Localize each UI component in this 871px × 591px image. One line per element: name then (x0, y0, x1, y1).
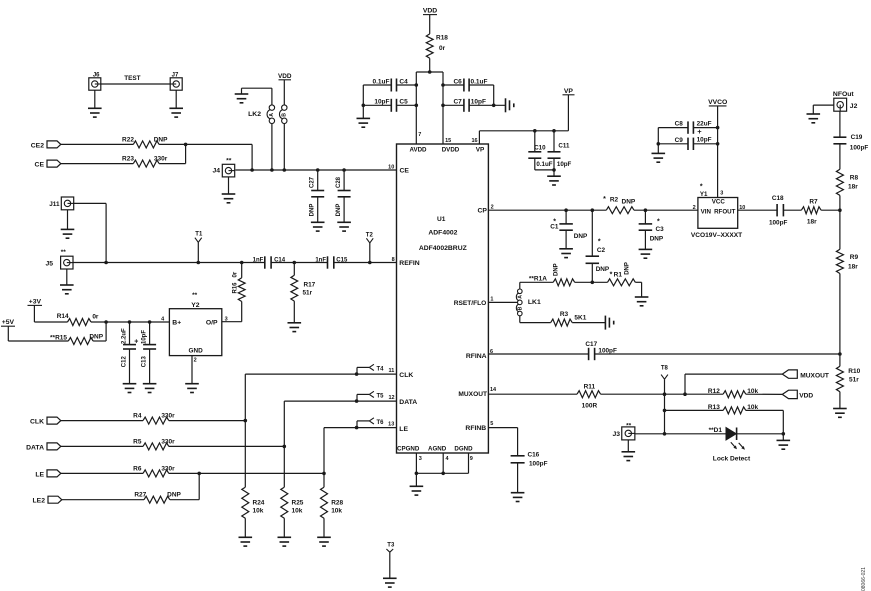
svg-text:100pF: 100pF (598, 347, 617, 354)
resistor R16 0r (vertical) (232, 263, 245, 322)
svg-text:18r: 18r (848, 264, 858, 271)
svg-text:VIN: VIN (701, 208, 712, 215)
svg-text:C3: C3 (656, 226, 665, 233)
resistor R1 DNP (608, 262, 636, 286)
node CE/LK2A (270, 168, 274, 172)
resistor R11 100R (577, 383, 601, 409)
svg-text:R1: R1 (614, 272, 623, 279)
resistor R17 51r (vertical) (291, 263, 316, 323)
wire DATA to R5 (61, 445, 143, 447)
output port MUXOUT (782, 370, 829, 379)
ground (J5) (60, 285, 74, 294)
wire LED cathode to ground (737, 433, 784, 435)
ground (R24) (239, 537, 253, 546)
svg-text:C28: C28 (336, 176, 342, 188)
svg-text:RFOUT: RFOUT (714, 208, 736, 215)
node LE/T6 (355, 426, 359, 430)
node AGND (441, 472, 445, 476)
svg-text:5K1: 5K1 (574, 315, 586, 322)
wire J3 to ground (627, 440, 629, 452)
wire CLK to R4 (61, 420, 143, 422)
svg-text:11: 11 (388, 368, 394, 374)
svg-text:*: * (603, 196, 606, 203)
wire C6/C7 right to ground (469, 85, 505, 105)
node CE/R22 (250, 168, 254, 172)
diode D1 LED lock detect (709, 427, 751, 462)
resistor R14 0r (57, 313, 99, 325)
wire R23 up to R22 net (159, 144, 186, 163)
resistor R13 10k (708, 404, 759, 414)
svg-text:R9: R9 (850, 254, 859, 261)
svg-text:R17: R17 (304, 282, 316, 289)
resistor R1A DNP (529, 263, 575, 285)
svg-text:R4: R4 (133, 413, 142, 420)
ground (C6/C7, sideways) (506, 98, 514, 112)
capacitor C10 0.1uF (528, 131, 554, 170)
svg-text:CLK: CLK (399, 372, 413, 379)
svg-text:VDD: VDD (423, 8, 437, 15)
svg-text:DATA: DATA (399, 399, 417, 406)
wire DATA pin 12 (284, 401, 396, 446)
capacitor C11 10pF (548, 131, 572, 176)
svg-text:LK2: LK2 (248, 111, 261, 118)
svg-text:DNP: DNP (574, 233, 588, 240)
svg-text:T8: T8 (661, 365, 669, 371)
node VVCO/C9 (716, 142, 720, 146)
svg-text:**R15: **R15 (50, 334, 67, 341)
svg-text:VP: VP (564, 88, 574, 95)
ground (T3) (383, 578, 397, 587)
wire J4 to ground (228, 177, 230, 194)
svg-text:DNP: DNP (553, 263, 559, 276)
wire R22 to CE node (159, 143, 252, 145)
wire J11 to ground (67, 210, 69, 230)
wire R4 to CLK column (169, 420, 246, 422)
svg-text:R18: R18 (436, 35, 448, 42)
resistor R2 DNP (603, 196, 636, 214)
svg-text:10k: 10k (253, 508, 264, 515)
wire C4/C5 left to ground (363, 85, 391, 118)
wire CE to R23 (61, 163, 134, 165)
node CLK junction (244, 419, 248, 423)
wire R12 to VDD tag (746, 393, 783, 395)
svg-text:100pF: 100pF (769, 220, 788, 227)
svg-text:330r: 330r (161, 413, 175, 420)
node REFIN/T2 (368, 261, 372, 265)
svg-text:*: * (700, 184, 703, 191)
wire Y2 O/P to R16 (222, 321, 242, 323)
svg-text:Y2: Y2 (191, 302, 200, 309)
wire supply rail to AVDD/DVDD (416, 72, 443, 144)
svg-text:R2: R2 (610, 196, 619, 203)
resistor R10 51r (vertical) (836, 366, 860, 391)
svg-text:1nF: 1nF (315, 258, 326, 264)
test point T3 (386, 543, 395, 579)
node CP/C3 (644, 208, 648, 212)
svg-text:0.1uF: 0.1uF (536, 161, 552, 168)
svg-text:VP: VP (476, 146, 485, 153)
node AVDD C5 tap (415, 104, 419, 108)
node RFINA/R10 (838, 352, 842, 356)
node CE/C27 (316, 168, 320, 172)
resistor R4 330r (133, 413, 175, 425)
svg-text:RFINA: RFINA (466, 353, 487, 360)
svg-text:Lock Detect: Lock Detect (713, 456, 751, 463)
wire CE2 to R22 (61, 143, 134, 145)
input port LE2 (33, 496, 62, 505)
capacitor C17 100pF (585, 341, 617, 360)
svg-text:LK1: LK1 (528, 299, 541, 306)
resistor R7 18r (801, 199, 821, 226)
node LE/R27 (197, 472, 201, 476)
capacitor C16 100pF (511, 451, 548, 492)
svg-text:**: ** (626, 422, 632, 429)
svg-text:T6: T6 (376, 420, 384, 426)
node VP/C10 (533, 129, 537, 133)
wire R15 up to B+ net (93, 322, 106, 341)
resistor R25 10k (vertical) (281, 446, 304, 537)
wire node to R10 (839, 354, 841, 366)
svg-text:C11: C11 (558, 142, 570, 149)
capacitor C6 0.1uF (443, 78, 488, 91)
test point T5 (357, 391, 384, 401)
power net +3V (28, 298, 43, 305)
ground (C3) (639, 249, 653, 258)
svg-text:10: 10 (388, 165, 394, 171)
wire R1 to ground (635, 282, 641, 297)
capacitor C12 2.2uF (122, 322, 139, 384)
resistor R5 330r (133, 438, 175, 450)
svg-text:3: 3 (419, 456, 422, 462)
svg-text:CLK: CLK (30, 419, 44, 426)
ground (C8/C9) (652, 153, 666, 162)
svg-text:C9: C9 (675, 137, 684, 144)
svg-text:C18: C18 (772, 195, 784, 202)
capacitor C7 10pF (443, 99, 486, 112)
svg-text:0r: 0r (439, 45, 446, 52)
node C2/R1A/R1 (591, 281, 595, 285)
svg-text:330r: 330r (154, 156, 168, 163)
svg-text:C27: C27 (310, 176, 316, 188)
wire REFIN row (J5 to C14) (73, 262, 265, 264)
svg-text:R11: R11 (584, 383, 596, 390)
svg-text:08066-021: 08066-021 (861, 567, 867, 591)
capacitor C28 DNP (336, 170, 351, 222)
svg-text:51r: 51r (849, 377, 859, 384)
ground (J3) (622, 452, 636, 461)
wire J5 to ground (66, 269, 68, 285)
input port LE (35, 470, 60, 478)
wire LK2 A to CE row (271, 124, 273, 170)
wire VVCO to Y1 VCC (717, 106, 719, 198)
svg-text:100pF: 100pF (850, 145, 869, 152)
svg-text:B+: B+ (172, 319, 181, 326)
wire VDD to R18 (429, 15, 431, 34)
svg-text:VCC: VCC (712, 199, 726, 206)
svg-text:3: 3 (720, 191, 723, 197)
svg-text:R8: R8 (850, 175, 859, 182)
wire R13 to LED cathode node (746, 410, 784, 433)
input port CE2 (31, 141, 61, 149)
wire R9 to RFINA node (839, 274, 841, 355)
svg-text:**: ** (61, 249, 67, 256)
svg-text:DNP: DNP (89, 334, 103, 341)
svg-text:J4: J4 (212, 168, 220, 175)
svg-text:DNP: DNP (336, 204, 342, 217)
svg-text:C6: C6 (453, 78, 462, 85)
svg-text:*: * (657, 219, 660, 226)
svg-text:10k: 10k (331, 508, 342, 515)
svg-text:C17: C17 (585, 341, 597, 348)
svg-text:DNP: DNP (310, 204, 316, 217)
power net VP (563, 88, 575, 95)
input port CLK (30, 417, 61, 425)
svg-text:GND: GND (188, 348, 203, 355)
wire J7 to ground (175, 90, 177, 108)
svg-text:10pF: 10pF (471, 99, 486, 106)
svg-text:Y1: Y1 (700, 191, 708, 198)
test point T1 (195, 232, 203, 263)
node CLK/T4 (355, 372, 359, 376)
wire C17 to R8/R9 node (595, 353, 840, 355)
svg-text:+: + (134, 339, 138, 346)
ground (J6) (88, 108, 102, 117)
wire J3 to LED anode (635, 433, 726, 435)
svg-text:R12: R12 (708, 388, 720, 395)
resistor R3 5K1 (551, 311, 587, 326)
svg-text:R24: R24 (253, 500, 265, 507)
svg-text:R10: R10 (848, 368, 860, 375)
svg-text:AVDD: AVDD (409, 146, 427, 153)
svg-text:DNP: DNP (167, 492, 181, 499)
svg-text:VCO19V–XXXXT: VCO19V–XXXXT (691, 232, 742, 239)
test point T6 (357, 418, 384, 428)
svg-text:REFIN: REFIN (399, 260, 419, 267)
wire +3V to R14 (34, 305, 67, 322)
test point T8 (661, 365, 669, 394)
ground (R17) (288, 323, 302, 332)
capacitor C8 22uF (658, 121, 717, 136)
wire LE to R6 (61, 472, 143, 474)
wire LE pin 13 (324, 428, 397, 474)
svg-text:C16: C16 (528, 451, 540, 458)
input port DATA (26, 443, 61, 451)
ground (C1) (559, 249, 573, 258)
svg-text:T3: T3 (387, 543, 395, 549)
svg-text:C2: C2 (597, 247, 606, 254)
node R22/R23 join (184, 143, 188, 147)
svg-text:R5: R5 (133, 438, 142, 445)
wire R27 up to LE row (170, 473, 199, 499)
node DATA/T5 (355, 399, 359, 403)
oscillator Y1 VCO (691, 184, 745, 239)
node DVDD C6 tap (441, 83, 445, 87)
svg-text:0.1uF: 0.1uF (373, 78, 390, 85)
svg-text:10k: 10k (292, 508, 303, 515)
connector J7 (170, 73, 182, 91)
svg-text:R3: R3 (560, 311, 569, 318)
svg-text:7: 7 (418, 132, 421, 138)
svg-text:13: 13 (388, 422, 394, 428)
svg-text:O/P: O/P (206, 319, 218, 326)
ground (C10/C11) (547, 176, 561, 185)
svg-text:LE: LE (35, 471, 44, 478)
capacitor C18 100pF (769, 195, 788, 227)
node C10/C11 ground (552, 168, 556, 172)
svg-text:C5: C5 (399, 99, 408, 106)
svg-text:A: A (269, 113, 275, 117)
svg-text:CE: CE (400, 167, 410, 174)
resistor R12 10k (708, 388, 759, 398)
ground (C27) (311, 222, 325, 231)
svg-text:DNP: DNP (650, 236, 664, 243)
wire node to R9 (839, 210, 841, 249)
capacitor C9 10pF (658, 137, 717, 150)
wire CLK pin 11 (245, 374, 396, 421)
ground (R10) (833, 409, 847, 418)
capacitor C15 1nF (315, 256, 348, 268)
svg-text:R13: R13 (708, 404, 720, 411)
ground (C13) (143, 384, 157, 393)
wire VP to pin 16 (479, 95, 568, 144)
svg-text:J7: J7 (172, 73, 179, 79)
node AVDD C4 tap (415, 83, 419, 87)
wire R13 row (665, 409, 724, 411)
node MUXOUT tag branch (683, 392, 687, 396)
connector J4 (212, 158, 234, 177)
svg-text:100R: 100R (582, 403, 598, 410)
svg-text:DATA: DATA (26, 444, 44, 451)
connector J2 (834, 98, 858, 111)
wire R5 to DATA column (169, 445, 284, 447)
resistor R27 DNP (134, 492, 181, 504)
jumper LK2 (248, 105, 287, 124)
resistor R6 330r (133, 465, 175, 477)
node VP/C11 (552, 129, 556, 133)
ground (LK2 A side) (235, 88, 249, 103)
svg-text:9: 9 (470, 456, 473, 462)
wire LK2 B to CE row (283, 124, 285, 170)
svg-text:15: 15 (445, 138, 451, 144)
svg-text:C7: C7 (453, 99, 462, 106)
svg-text:1nF: 1nF (253, 258, 264, 264)
node CE/LK2B (283, 168, 287, 172)
svg-text:T4: T4 (376, 366, 384, 372)
op-amp U1 ADF4002 (PLL IC) (397, 144, 489, 453)
resistor R28 10k (vertical) (321, 473, 344, 537)
jumper LK1 (516, 289, 541, 316)
ground (C28) (337, 222, 351, 231)
wire R6 to LE column (169, 472, 324, 474)
wire RFINA to C17 (488, 353, 588, 355)
svg-text:RFINB: RFINB (465, 425, 486, 432)
resistor R22 DNP (122, 136, 168, 148)
svg-text:10pF: 10pF (557, 161, 572, 168)
svg-text:2: 2 (693, 205, 696, 211)
svg-text:MUXOUT: MUXOUT (458, 391, 487, 398)
wire C15 to pin 8 (334, 262, 397, 264)
svg-text:R14: R14 (57, 313, 69, 320)
svg-text:*: * (610, 272, 613, 279)
capacitor C2 DNP (586, 210, 610, 282)
ground (R25) (278, 537, 292, 546)
wire R14 to Y2 B+ (91, 321, 169, 323)
svg-text:J2: J2 (850, 103, 858, 110)
svg-text:AGND: AGND (428, 445, 447, 452)
resistor R9 18r (vertical) (836, 249, 858, 273)
ground (J2) (807, 114, 821, 123)
wire RFINB to C16 (488, 428, 517, 456)
svg-text:R16: R16 (232, 282, 238, 294)
node CE/C28 (342, 168, 346, 172)
wire C19 to R8 (839, 144, 841, 170)
svg-text:CE2: CE2 (31, 142, 44, 149)
svg-text:DGND: DGND (454, 445, 473, 452)
wire branch to MUXOUT tag (685, 374, 782, 394)
svg-text:C10: C10 (534, 144, 546, 151)
wire CP to R2 (488, 209, 606, 211)
svg-text:TEST: TEST (124, 75, 140, 82)
wire C8/C9 left to ground (657, 128, 659, 154)
svg-text:C12: C12 (122, 356, 128, 368)
node CP/C1 (564, 208, 568, 212)
ground (R28) (317, 537, 331, 546)
node REFIN/R17 (293, 261, 297, 265)
svg-text:**D1: **D1 (709, 427, 723, 434)
node C6/C7 join (492, 104, 496, 108)
capacitor C19 100pF (833, 134, 868, 152)
svg-text:R28: R28 (331, 500, 343, 507)
svg-text:**: ** (192, 292, 198, 299)
svg-text:12: 12 (388, 395, 394, 401)
svg-text:18r: 18r (807, 218, 817, 225)
capacitor C13 10pF (142, 322, 156, 384)
wire C18 to R7 (783, 209, 801, 211)
svg-text:R25: R25 (292, 500, 304, 507)
ground (J7) (169, 108, 183, 117)
node MUXOUT/T8 (663, 392, 667, 396)
svg-text:LE: LE (399, 426, 408, 433)
wire to ground (415, 473, 417, 486)
wire LK1 B to R3 (520, 316, 551, 323)
test point T2 (366, 232, 374, 262)
svg-text:DVDD: DVDD (442, 146, 460, 153)
wire R3 to ground (572, 322, 605, 324)
resistor R18 0r (426, 34, 448, 58)
svg-text:8: 8 (392, 257, 395, 263)
svg-text:RSET/FLO: RSET/FLO (454, 300, 487, 307)
svg-text:J3: J3 (612, 431, 620, 438)
svg-text:DNP: DNP (622, 198, 636, 205)
wire T8 node down to LED row (664, 394, 666, 434)
ground (C16) (511, 493, 525, 502)
node B+/R14 (104, 320, 108, 324)
svg-text:C13: C13 (142, 356, 148, 368)
svg-text:CPGND: CPGND (397, 445, 420, 452)
connector J6 (89, 73, 101, 91)
svg-text:R6: R6 (133, 465, 142, 472)
svg-text:+: + (697, 127, 702, 136)
svg-text:A: A (517, 295, 523, 299)
node R7/R8/R9 (838, 208, 842, 212)
svg-text:ADF4002BRUZ: ADF4002BRUZ (419, 245, 467, 252)
wire CE net down to CE row (251, 144, 253, 170)
svg-text:T2: T2 (366, 232, 374, 238)
svg-text:**R1A: **R1A (529, 276, 547, 283)
ground (LED) (777, 434, 791, 449)
svg-text:CP: CP (477, 208, 487, 215)
test point T4 (357, 364, 384, 374)
